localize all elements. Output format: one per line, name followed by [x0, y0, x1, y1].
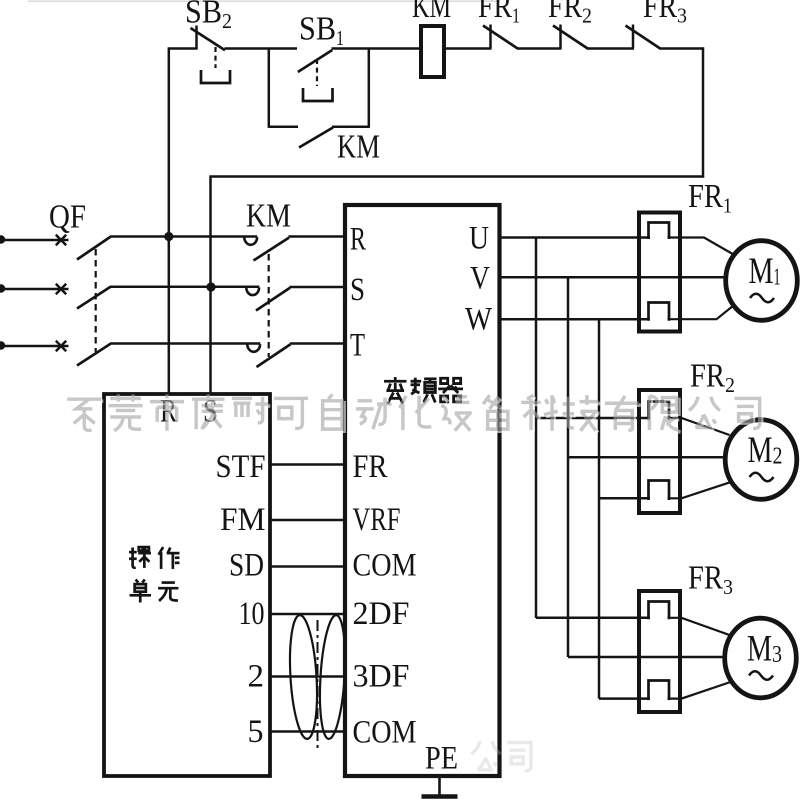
- label FR3 (relay): [688, 560, 733, 600]
- svg-text:SD: SD: [229, 548, 264, 584]
- svg-text:SB: SB: [299, 11, 336, 48]
- wire FR2 to M2 top: [668, 418, 730, 435]
- label FR3 (contact): [643, 0, 687, 28]
- label FR2 (contact): [548, 0, 592, 28]
- node dot R-line: [164, 232, 173, 241]
- svg-text:1: 1: [336, 26, 344, 50]
- wire STF-FR: [270, 463, 344, 466]
- contact KM auxiliary (NO, self-hold): [269, 127, 369, 148]
- svg-text:2: 2: [222, 9, 232, 33]
- symbol AC tilde M3: [749, 671, 773, 680]
- svg-text:FR: FR: [688, 178, 723, 215]
- shielded cable symbol (ellipse 2): [317, 614, 349, 739]
- wire L1 KM to inverter R: [289, 235, 344, 238]
- svg-text:1: 1: [512, 4, 520, 28]
- breaker QF pole L2: [56, 284, 111, 309]
- terminal dot phase L2: [0, 284, 5, 292]
- shielded cable axis (dash-dot): [317, 620, 319, 752]
- label SB1: [299, 11, 344, 51]
- terminal dot phase L1: [0, 235, 5, 243]
- wire 5-COM: [270, 730, 344, 733]
- wire L2 QF to KM: [110, 286, 259, 289]
- svg-text:VRF: VRF: [353, 502, 401, 538]
- node dot S-line: [206, 282, 215, 291]
- wire L1 input: [1, 239, 69, 242]
- svg-text:2: 2: [582, 4, 592, 28]
- wire FR1 to FR2: [518, 47, 562, 50]
- svg-text:FR: FR: [548, 0, 582, 25]
- motor M3: [725, 618, 797, 698]
- svg-text:FR: FR: [690, 358, 725, 395]
- contact KM main pole L3: [247, 344, 290, 367]
- wire U output: [498, 236, 650, 239]
- svg-text:S: S: [350, 272, 365, 308]
- wire L2 KM to inverter S: [290, 286, 344, 289]
- wire FR3 to M3 bottom: [668, 682, 731, 699]
- svg-text:FR: FR: [688, 560, 723, 597]
- label M3: [747, 629, 782, 670]
- svg-text:R: R: [350, 222, 366, 258]
- wire FR1 to M1 top: [668, 238, 734, 255]
- heater element FR3 top: [649, 602, 670, 620]
- label 操作单元 (operator unit): [129, 547, 179, 602]
- watermark remnant bottom: [472, 741, 531, 771]
- svg-text:1: 1: [774, 265, 781, 291]
- svg-text:FR: FR: [643, 0, 677, 25]
- wire L3 KM to inverter T: [290, 342, 343, 345]
- wire control return to S-node vertical: [209, 177, 212, 395]
- svg-text:M: M: [747, 629, 772, 670]
- wire FR2 to FR3: [587, 47, 634, 50]
- svg-text:M: M: [748, 430, 773, 471]
- heater element FR1 bottom: [649, 303, 670, 321]
- motor M2: [725, 420, 797, 500]
- svg-text:U: U: [469, 221, 489, 257]
- svg-text:FM: FM: [220, 502, 266, 538]
- wire tap to M3 middle: [568, 656, 725, 659]
- svg-text:W: W: [465, 302, 493, 338]
- inverter box (frequency converter): [345, 205, 500, 776]
- wire V output (through FR1 to M1): [498, 276, 727, 279]
- svg-text:KM: KM: [337, 129, 380, 166]
- thermal relay FR3 (heater box): [639, 591, 680, 712]
- svg-text:T: T: [350, 328, 365, 364]
- label 变频器 (inverter): [384, 377, 463, 404]
- linkage QF (dashed): [95, 249, 97, 352]
- wire W output: [498, 318, 650, 321]
- watermark text row (company name): [67, 394, 761, 432]
- svg-text:KM: KM: [246, 198, 291, 235]
- wire tap to FR2 top: [536, 417, 650, 420]
- label FR1 (contact): [478, 0, 520, 28]
- wire SB1 to KM coil: [332, 47, 420, 50]
- label M1: [749, 251, 781, 292]
- wire SD-COM: [270, 565, 344, 568]
- svg-text:3: 3: [772, 642, 782, 668]
- svg-text:KM: KM: [412, 0, 451, 25]
- svg-text:COM: COM: [353, 548, 417, 584]
- wire L2 input: [1, 288, 69, 291]
- thermal relay FR1 (heater box): [639, 213, 680, 332]
- ground symbol PE: [422, 778, 458, 797]
- wire SB2 to SB1: [225, 47, 298, 50]
- svg-text:2: 2: [248, 659, 265, 695]
- wire KM-aux branch left vertical: [268, 49, 271, 128]
- wire control-line left segment: [169, 47, 197, 50]
- heater element FR2 bottom: [649, 481, 670, 501]
- pushbutton SB1 (NO start button): [298, 50, 333, 101]
- contact FR1 (NC overload): [483, 25, 518, 49]
- svg-text:FR: FR: [353, 449, 388, 485]
- svg-text:M: M: [749, 251, 774, 292]
- contact KM main pole L1: [244, 237, 289, 260]
- svg-text:3DF: 3DF: [353, 659, 410, 695]
- thermal relay FR2 (heater box): [639, 390, 680, 513]
- svg-text:V: V: [470, 261, 490, 297]
- wire L3 QF to KM: [110, 342, 260, 345]
- wire FR3 to right corner: [660, 47, 705, 50]
- wire V tap vertical: [567, 277, 570, 657]
- breaker QF pole L1: [56, 235, 111, 260]
- wire R-node vertical (to operator unit): [168, 47, 171, 394]
- svg-text:5: 5: [248, 714, 264, 750]
- wire 2-3DF: [270, 675, 344, 678]
- svg-text:QF: QF: [49, 199, 86, 236]
- svg-text:FR: FR: [478, 0, 512, 25]
- svg-text:1: 1: [723, 194, 732, 218]
- terminal dot phase L3: [0, 341, 5, 349]
- breaker QF pole L3: [56, 341, 111, 366]
- label FR2 (relay): [690, 358, 735, 398]
- wire KM coil to FR1: [446, 47, 492, 50]
- wire control return right vertical: [702, 47, 705, 177]
- wire control return horizontal: [209, 175, 704, 178]
- wire L1 QF to KM: [110, 235, 257, 238]
- wire 10-2DF: [270, 613, 344, 616]
- svg-text:SB: SB: [185, 0, 222, 31]
- wire FR3 to M3 top: [668, 618, 730, 635]
- label SB2: [185, 0, 232, 33]
- motor M1: [726, 241, 798, 321]
- wire tap to FR3 top: [536, 617, 650, 620]
- heater element FR3 bottom: [649, 681, 670, 701]
- svg-text:10: 10: [239, 596, 265, 632]
- wire U tap vertical: [535, 238, 538, 619]
- svg-text:2: 2: [725, 373, 735, 397]
- symbol AC tilde M2: [750, 473, 774, 482]
- heater element FR1 top: [649, 223, 670, 240]
- wire KM-aux branch right vertical: [368, 49, 371, 128]
- wire FR2 to M2 bottom: [668, 482, 731, 498]
- contact KM main pole L2: [246, 288, 290, 311]
- coil KM (contactor coil): [421, 26, 444, 77]
- linkage KM main (dashed): [268, 254, 270, 357]
- svg-text:3: 3: [723, 575, 733, 599]
- svg-text:3: 3: [677, 4, 687, 28]
- frame artifact line (top): [28, 0, 500, 2]
- wire tap to FR3 bottom: [599, 697, 650, 700]
- svg-text:PE: PE: [425, 741, 458, 777]
- svg-text:2DF: 2DF: [353, 596, 410, 632]
- heater element FR2 top: [649, 402, 670, 420]
- svg-text:2: 2: [773, 444, 783, 470]
- contact FR2 (NC overload): [553, 25, 588, 49]
- contact FR3 (NC overload): [626, 25, 661, 49]
- label M2: [748, 430, 783, 471]
- operator unit box: [104, 394, 270, 776]
- label FR1 (relay): [688, 178, 732, 218]
- pushbutton SB2 (NC stop button): [191, 26, 231, 84]
- svg-text:STF: STF: [216, 449, 266, 485]
- wire FM-VRF: [270, 519, 344, 522]
- svg-text:COM: COM: [353, 715, 417, 751]
- symbol AC tilde M1: [750, 294, 774, 303]
- wire tap to FR2 bottom: [599, 497, 650, 500]
- shielded cable symbol (ellipse 1): [287, 614, 321, 739]
- wire tap to M2 middle: [568, 456, 726, 459]
- wire W tap vertical: [598, 319, 601, 698]
- wire L3 input: [1, 345, 69, 348]
- wire FR1 to M1 bottom: [668, 306, 734, 320]
